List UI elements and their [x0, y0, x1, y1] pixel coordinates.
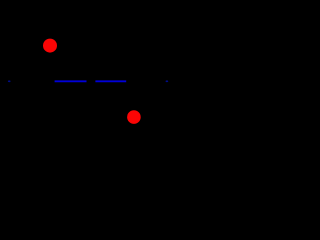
node A (red marker): [43, 39, 57, 53]
dashed edge: faint right end dot: [166, 80, 169, 82]
dashed edge: dash 1: [55, 80, 87, 82]
dashed edge: dash 2: [95, 80, 126, 82]
node B (red marker): [127, 110, 141, 124]
dashed edge: faint left end dot: [8, 80, 11, 82]
